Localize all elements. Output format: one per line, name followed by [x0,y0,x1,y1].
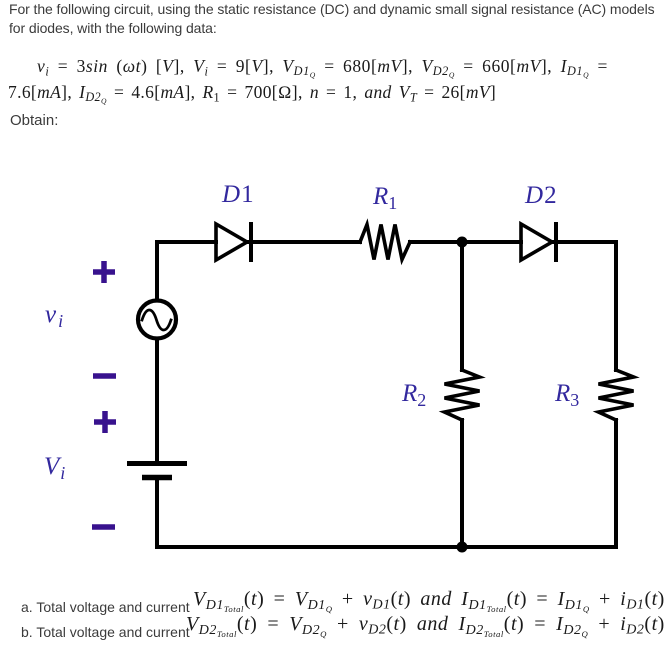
plus sign Vi [93,410,117,434]
wire middle branch upper [460,242,464,370]
node dot bottom [457,542,468,553]
wire battery to bottom [155,478,159,548]
resistor R3 [599,370,634,420]
wire D1 to R1 [251,240,360,244]
resistor R2 [445,370,480,420]
node dot top [457,237,468,248]
minus sign vi [93,373,116,379]
Obtain: [10,112,58,129]
AC source vi [138,301,176,339]
label vi [45,301,65,332]
diode D1 [216,224,251,260]
label D2 [525,182,558,210]
wire source to battery [155,340,159,463]
label D1 [222,181,255,209]
wire R1 to node [410,240,521,244]
wire D2 to right rail [556,242,616,370]
battery Vi [127,461,187,466]
wire middle branch lower [460,420,464,547]
diode D2 [521,224,556,260]
answer line b [21,624,190,640]
label R3 [555,380,579,411]
label R1 [373,183,397,214]
math data line 1 [37,56,608,80]
intro paragraph [9,0,655,38]
label Vi [44,453,66,484]
wire top left segment [157,242,216,298]
label R2 [402,380,426,411]
answer line a [21,599,190,615]
plus sign vi [92,260,116,284]
wire R3 to bottom [157,420,616,547]
minus sign Vi [92,524,115,530]
resistor R1 [360,225,410,260]
math data line 2 [8,82,496,106]
